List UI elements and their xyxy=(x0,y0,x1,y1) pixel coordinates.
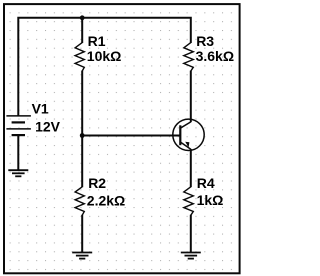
node B junction dot xyxy=(80,133,85,138)
wire R1 bottom to node B xyxy=(81,71,83,136)
resistor R3 xyxy=(184,43,194,71)
wire V1 plus to node A (left vertical and top horizontal) xyxy=(18,18,82,117)
resistor R1 xyxy=(75,43,84,71)
node A junction dot xyxy=(80,15,85,20)
wire R2 bottom to ground xyxy=(81,215,83,252)
ground at V1 xyxy=(8,170,28,176)
wire V1 minus to ground xyxy=(17,135,19,170)
ground at R4 xyxy=(181,253,201,259)
wire R3 bottom to collector of Q1 xyxy=(190,71,192,123)
transistor Q1 xyxy=(173,119,204,150)
svg-text:12V: 12V xyxy=(35,119,61,135)
svg-text:R2: R2 xyxy=(88,175,106,191)
svg-text:1kΩ: 1kΩ xyxy=(197,192,224,208)
svg-text:10kΩ: 10kΩ xyxy=(87,48,122,64)
svg-text:R1: R1 xyxy=(88,33,106,49)
wire node B to base of Q1 xyxy=(82,135,180,137)
svg-text:V1: V1 xyxy=(32,100,49,116)
svg-text:R4: R4 xyxy=(197,175,215,191)
ground at R2 xyxy=(72,253,92,259)
wire node B to R2 top xyxy=(81,136,83,188)
wire emitter of Q1 to R4 top xyxy=(190,149,192,187)
wire R4 bottom to ground xyxy=(190,215,192,252)
resistor R2 xyxy=(75,187,84,215)
wire node A to R3 top xyxy=(82,18,191,43)
battery V1 xyxy=(6,116,31,135)
wire node A to R1 top xyxy=(81,18,83,43)
svg-text:3.6kΩ: 3.6kΩ xyxy=(196,48,234,64)
svg-text:2.2kΩ: 2.2kΩ xyxy=(87,193,125,209)
resistor R4 xyxy=(184,187,194,215)
svg-text:R3: R3 xyxy=(196,33,214,49)
